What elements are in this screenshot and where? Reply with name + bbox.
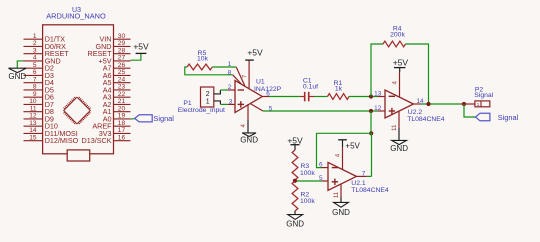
svg-text:28: 28 [118, 47, 126, 54]
svg-text:7: 7 [33, 76, 37, 83]
U3 pin 27 +5V [99, 55, 131, 66]
U3 pin 5 D2 [24, 62, 54, 73]
svg-text:11: 11 [30, 105, 37, 112]
op-amp U2.1 triangle [328, 162, 356, 190]
U3 pin 9 D6 [24, 91, 54, 102]
svg-text:3: 3 [33, 47, 37, 54]
svg-text:1: 1 [477, 102, 480, 107]
svg-text:18: 18 [118, 120, 126, 127]
U3 pin 12 D9 [24, 113, 54, 124]
svg-text:12: 12 [29, 113, 37, 120]
label C1 0.1uf [303, 78, 318, 91]
U1 pin 8 (RG) diagonal [228, 69, 241, 83]
svg-text:13: 13 [374, 90, 382, 97]
label R1 1k [334, 80, 343, 92]
U1 pin 5 (REF) diagonal [251, 104, 273, 112]
U1 pin 1 (RG) diagonal [228, 61, 245, 86]
svg-text:2: 2 [206, 91, 210, 98]
wire R1 to U2.2 pin13 [349, 96, 378, 98]
svg-text:11: 11 [333, 191, 340, 198]
svg-text:2: 2 [33, 40, 37, 47]
svg-text:9: 9 [33, 91, 37, 98]
U1 pin 2 stub [228, 84, 235, 91]
U3 pin 10 D7 [24, 98, 54, 109]
P1 pin number 2 [206, 91, 210, 98]
U3 pin 21 A2 [103, 98, 131, 109]
svg-text:22: 22 [118, 91, 126, 98]
wire U1 pin4 to ground [247, 120, 249, 133]
junction node R4/output [426, 102, 430, 106]
U3 pin 8 D5 [24, 84, 54, 95]
IC U3 ARDUINO_NANO reference label [46, 7, 106, 21]
connector P2 body [475, 101, 490, 107]
wire output to Signal flag [464, 104, 476, 117]
U3 pin 26 A7 [103, 62, 131, 73]
wire P1 pin2 to U1 pin2 [214, 90, 228, 94]
U3 pin 17 3V3 [99, 127, 131, 138]
svg-text:16: 16 [118, 134, 126, 141]
label U1 INA122P [254, 79, 282, 93]
svg-text:10: 10 [29, 98, 37, 105]
svg-text:100k: 100k [300, 198, 315, 205]
wire P1 pin1 to U1 pin3 [214, 101, 228, 105]
svg-text:2: 2 [228, 84, 232, 91]
wire U2.1 pin7 to feedback rail [367, 175, 372, 177]
svg-text:TL084CNE4: TL084CNE4 [351, 187, 389, 194]
svg-text:TL084CNE4: TL084CNE4 [407, 116, 445, 123]
U3 pin 15 D12/MISO [24, 134, 79, 145]
junction node R3/R2/U2.1 pin5 [293, 179, 297, 183]
svg-text:15: 15 [29, 134, 37, 141]
U2.2 pin 13 stub [374, 90, 385, 97]
svg-text:6: 6 [319, 162, 323, 169]
wire U3 pin19 to Signal flag [131, 118, 135, 120]
U1 pin 4 (V-) [240, 104, 248, 127]
ground GND (U1) [240, 133, 258, 144]
P1 pin number 1 [206, 98, 210, 105]
U1 pin 3 stub [228, 98, 235, 105]
svg-text:7: 7 [362, 170, 366, 177]
svg-text:20: 20 [118, 105, 126, 112]
svg-text:GND: GND [240, 135, 258, 144]
svg-text:10k: 10k [197, 55, 209, 62]
wire U2.2 pin14 to P2 [421, 103, 461, 105]
U3 pin 6 D3 [24, 69, 54, 80]
svg-text:GND: GND [332, 208, 350, 217]
ground GND (U2.1) [332, 202, 350, 217]
svg-text:24: 24 [118, 76, 126, 83]
U2.1 pin 6 stub [319, 162, 328, 169]
wire R5 right to U1 pin1 [212, 66, 236, 68]
svg-text:3: 3 [229, 98, 233, 105]
wire U3 pin27 to +5V [131, 54, 141, 61]
svg-text:GND: GND [286, 220, 304, 229]
svg-text:5: 5 [33, 62, 37, 69]
wire Vref U1 pin5 to U2.2 pin12 [263, 110, 378, 112]
label U2.1 TL084CNE4 [351, 180, 389, 194]
svg-text:U1: U1 [256, 79, 265, 86]
ground GND (U2.2) [390, 140, 408, 152]
U2.1 pin 4 (V+) [334, 147, 342, 169]
U2.1 pin 7 output stub [356, 170, 366, 177]
svg-text:D12/MISO: D12/MISO [45, 136, 79, 145]
wire C1 to R1 [314, 96, 328, 98]
U1 pin 7 (V+) [241, 60, 249, 88]
op-amp U2.2 triangle [385, 90, 414, 118]
svg-text:+5V: +5V [247, 47, 263, 57]
wire U2.1 pin11 to ground [340, 197, 342, 202]
svg-text:25: 25 [118, 69, 126, 76]
U2.2 pin 14 output stub [414, 98, 424, 105]
U3 pin 4 GND [24, 55, 61, 66]
wire U2.1 feedback rail [317, 133, 372, 176]
P2 pin 1 stub [461, 103, 475, 105]
svg-text:4: 4 [391, 81, 398, 85]
U3 pin 28 RESET [88, 47, 131, 58]
IC U3 ARDUINO_NANO body [43, 25, 114, 154]
svg-text:23: 23 [118, 84, 126, 91]
svg-text:12: 12 [374, 105, 382, 112]
U3 pin 29 GND [96, 40, 131, 51]
label R5 10k [197, 50, 209, 63]
svg-text:11: 11 [391, 124, 398, 131]
svg-text:17: 17 [118, 127, 126, 134]
label R4 200k [390, 25, 405, 38]
label R3 100k [300, 163, 315, 177]
svg-text:6: 6 [33, 69, 37, 76]
U3 pin 7 D4 [24, 76, 54, 87]
wire R4 right leg [406, 44, 429, 104]
svg-text:0.1uf: 0.1uf [303, 84, 318, 91]
label U2.2 TL084CNE4 [407, 109, 445, 123]
U3 pin 3 RESET [24, 47, 70, 58]
svg-text:26: 26 [118, 62, 126, 69]
svg-text:1: 1 [206, 98, 210, 105]
IC U3 usb connector outline [67, 150, 90, 161]
U3 pin 22 A3 [103, 91, 131, 102]
svg-text:Signal: Signal [153, 114, 174, 123]
svg-text:Signal: Signal [474, 92, 493, 99]
wire Vref riser [370, 111, 372, 133]
svg-text:29: 29 [118, 40, 126, 47]
svg-text:27: 27 [118, 55, 126, 62]
junction node output/Signal flag [462, 102, 466, 106]
junction node Vref riser / U2.1 feedback [369, 131, 373, 135]
svg-text:+5V: +5V [133, 42, 149, 52]
label R2 100k [300, 191, 315, 205]
power +5V (R3) [287, 136, 303, 150]
svg-text:21: 21 [118, 98, 126, 105]
net label Signal (A0) [135, 114, 175, 123]
svg-text:30: 30 [118, 33, 126, 40]
U2.2 pin 11 (V-) [391, 111, 399, 131]
svg-text:GND: GND [8, 72, 26, 81]
svg-text:8: 8 [33, 84, 37, 91]
U3 pin 24 A5 [103, 76, 131, 87]
U3 pin 1 D1/TX [24, 33, 66, 44]
wire R4 left leg [371, 44, 383, 97]
connector P1 body [201, 87, 214, 107]
U3 pin 20 A1 [103, 105, 131, 116]
svg-text:ARDUINO_NANO: ARDUINO_NANO [46, 12, 106, 21]
svg-text:4: 4 [334, 153, 341, 157]
power +5V (U2.1) [338, 140, 360, 151]
svg-text:+5V: +5V [287, 136, 303, 146]
wire U1 pin6 to C1 [269, 96, 300, 98]
label P1 Electrode_input [178, 100, 225, 114]
U3 pin 23 A4 [103, 84, 131, 95]
U3 pin 25 A6 [103, 69, 131, 80]
svg-text:D13/SCK: D13/SCK [82, 136, 112, 145]
IC U3 MCU diamond outline (QFP) [64, 97, 91, 124]
power +5V (U1) [245, 47, 263, 60]
svg-text:Electrode_input: Electrode_input [178, 107, 225, 114]
svg-text:7: 7 [241, 74, 248, 78]
capacitor C1 [300, 92, 314, 101]
svg-text:1k: 1k [335, 85, 343, 92]
ground GND (arduino) [8, 68, 26, 81]
U3 pin 19 A0 [103, 113, 131, 124]
U2.2 pin 12 stub [374, 105, 385, 112]
svg-text:Signal: Signal [498, 113, 519, 122]
op-amp U1 INA122P triangle [235, 81, 262, 113]
U3 pin 18 AREF [92, 120, 130, 131]
wire U2.2 pin11 to ground [398, 128, 400, 140]
wire R5 left loop to U1 pin8 [185, 67, 233, 75]
U3 pin 30 VIN [100, 33, 131, 44]
resistor R4 [383, 41, 406, 47]
junction node Vref/line-B [369, 109, 373, 113]
svg-text:+5V: +5V [345, 141, 360, 150]
U3 pin 11 D8 [24, 105, 54, 116]
svg-text:GND: GND [390, 144, 408, 153]
resistor R1 [328, 94, 350, 100]
power +5V (arduino) [133, 42, 149, 54]
U3 pin 2 D0/RX [24, 40, 67, 51]
U3 pin 16 D13/SCK [82, 134, 131, 145]
svg-text:100k: 100k [300, 170, 315, 177]
svg-text:14: 14 [29, 127, 37, 134]
power +5V (U2.2) [393, 57, 409, 72]
U2.1 pin 11 (V-) [333, 184, 341, 198]
net label Signal (output) [476, 113, 519, 122]
svg-text:P1: P1 [183, 100, 192, 107]
svg-text:+5V: +5V [393, 57, 409, 67]
svg-text:200k: 200k [390, 31, 405, 38]
svg-text:4: 4 [33, 55, 37, 62]
U2.1 pin 5 stub [319, 175, 328, 182]
U3 pin 14 D11/MOSI [24, 127, 78, 138]
svg-text:1: 1 [228, 61, 232, 68]
resistor R3 [292, 150, 298, 180]
ground GND (R2) [286, 215, 304, 229]
svg-text:4: 4 [240, 124, 247, 128]
resistor R2 [292, 181, 298, 211]
svg-text:5: 5 [319, 175, 323, 182]
wire R3/R2 node to U2.1 pin5 [295, 180, 322, 182]
svg-text:8: 8 [228, 69, 232, 76]
wire U3 pin4 to ground [17, 61, 23, 68]
svg-text:1: 1 [33, 33, 37, 40]
wire R2 to ground [294, 211, 296, 215]
U1 pin 6 output stub [262, 90, 270, 97]
junction node R4/line-A [369, 94, 373, 98]
U2.2 pin 4 (V+) [391, 72, 399, 97]
svg-text:13: 13 [29, 120, 37, 127]
U3 pin 13 D10 [24, 120, 58, 131]
resistor R5 [187, 64, 212, 70]
svg-text:19: 19 [118, 113, 126, 120]
label P2 Signal [474, 86, 493, 99]
